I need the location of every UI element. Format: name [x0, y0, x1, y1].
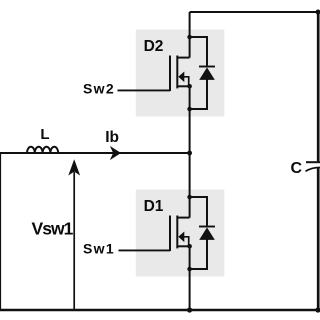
svg-text:Vsw1: Vsw1	[32, 219, 74, 239]
svg-text:C: C	[291, 160, 303, 177]
svg-text:D1: D1	[144, 198, 164, 215]
svg-text:Sw2: Sw2	[83, 81, 115, 97]
svg-text:D2: D2	[144, 38, 164, 55]
svg-text:L: L	[40, 126, 49, 143]
svg-text:Ib: Ib	[105, 129, 119, 146]
svg-text:Sw1: Sw1	[83, 241, 115, 257]
